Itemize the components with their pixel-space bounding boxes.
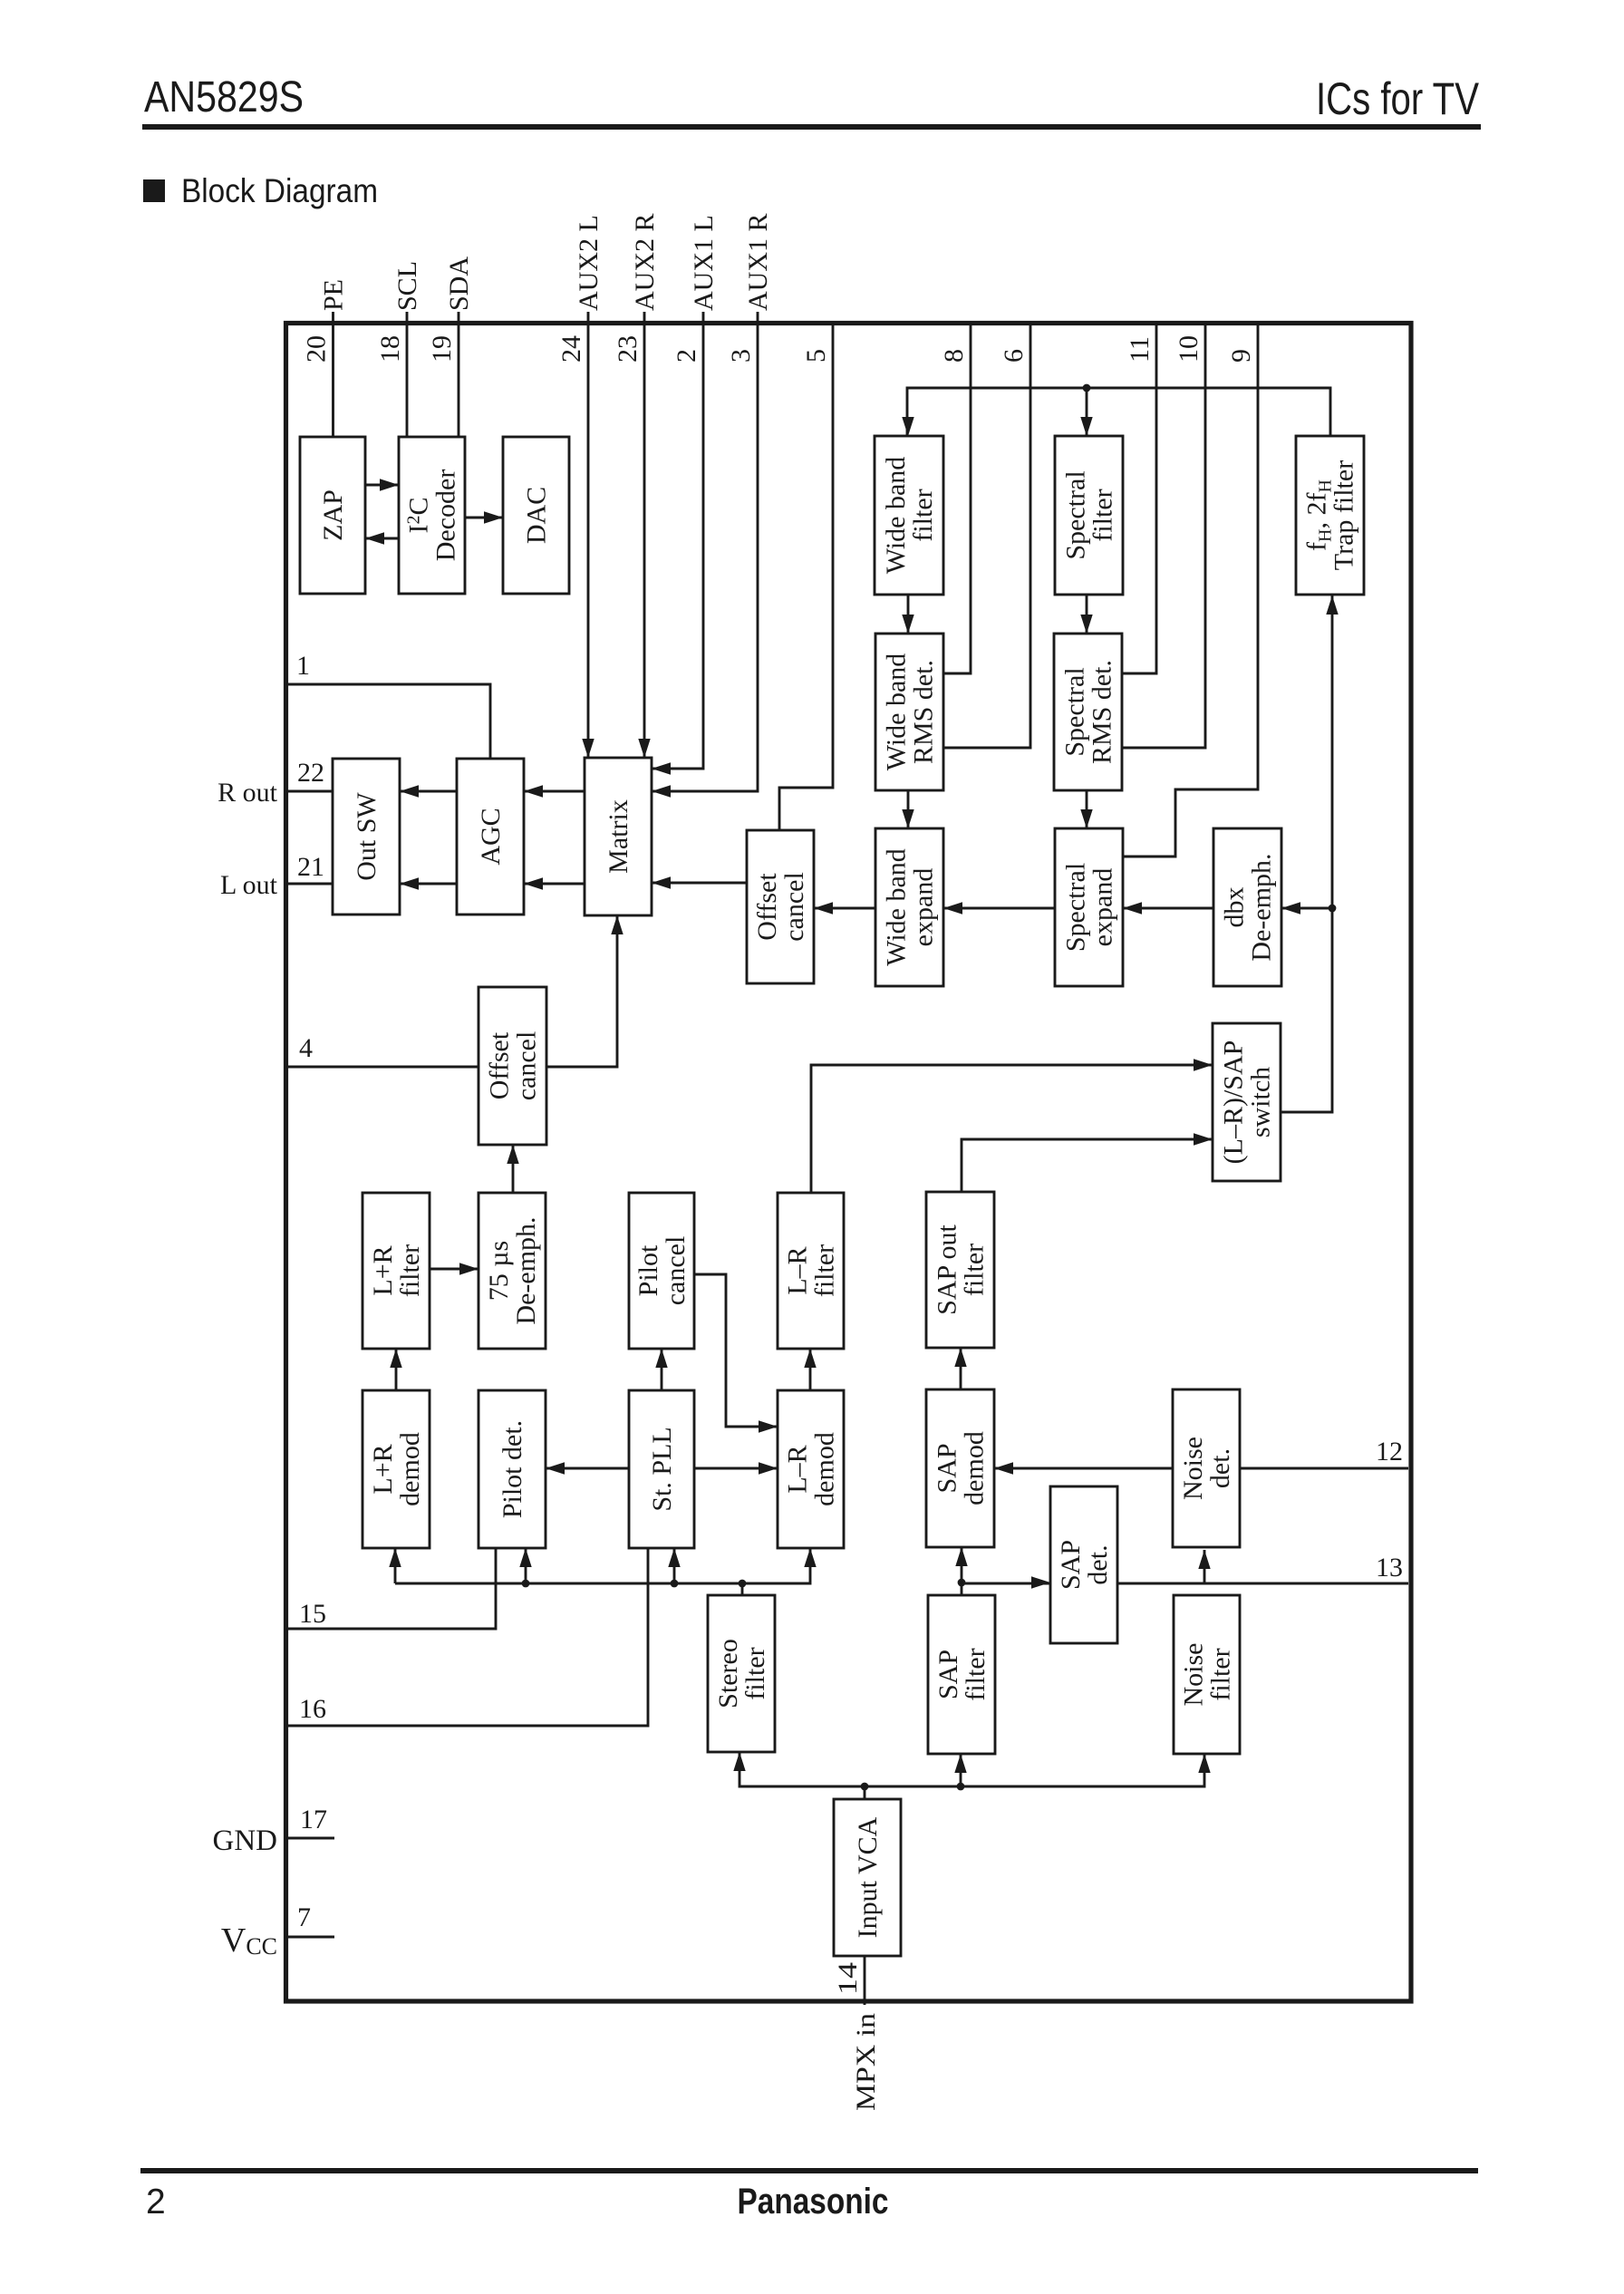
svg-text:Wide band: Wide band [882,848,912,966]
wire Wide band RMS det. to expand [907,790,910,828]
svg-text:SCL: SCL [392,261,422,311]
wire Wide band filter to RMS det. [907,594,910,634]
svg-text:Offset: Offset [752,873,782,941]
pin number 9 [1226,349,1256,363]
pin label R out [217,778,278,808]
svg-text:expand: expand [1088,868,1118,947]
pin label AUX2 L [574,215,604,311]
svg-text:2: 2 [672,349,701,363]
pin number 24 [556,335,586,363]
svg-text:16: 16 [299,1694,326,1724]
block AGC [457,759,524,915]
wire pin 21 L out [288,883,333,886]
header rule [142,124,1481,130]
block L+R filter [362,1193,430,1349]
block L-R demod [778,1390,844,1548]
arrow into SAP demod right from pin 12 [994,1462,1013,1474]
arrow into Matrix right from pin 3 [652,785,671,797]
junction bus from Stereo filter [739,1580,747,1595]
svg-text:ZAP: ZAP [318,489,348,541]
wire pin 16 to St. PLL [288,1548,648,1726]
svg-text:L–R: L–R [783,1445,813,1493]
svg-text:RMS det.: RMS det. [1087,660,1117,764]
svg-text:20: 20 [302,335,332,363]
svg-text:Panasonic: Panasonic [738,2182,889,2221]
wire Matrix to AGC (R) [524,790,585,793]
svg-text:filter: filter [740,1647,770,1699]
arrow into DAC [484,511,503,523]
block SAP filter [928,1595,995,1754]
svg-text:dbx: dbx [1220,887,1250,928]
pin number 7 [297,1902,311,1932]
wire Spectral expand to Wide band expand [943,907,1055,910]
block Wide band RMS det. [875,634,943,790]
svg-text:filter: filter [395,1244,425,1297]
svg-text:10: 10 [1174,335,1203,363]
svg-text:det.: det. [1083,1544,1113,1584]
block 75us De-emph. [478,1193,546,1349]
block (L-R)/SAP switch [1213,1023,1281,1181]
block SAP demod [926,1389,994,1547]
pin label SDA [444,257,474,311]
junction bus to Pilot det. [522,1548,530,1587]
junction to dbx De-emph. [1281,905,1336,913]
block L-R filter [778,1193,844,1349]
arrow into SAP demod bottom [955,1547,967,1566]
block Pilot det. [478,1390,546,1548]
arrow into 75us De-emph. [459,1263,478,1274]
arrow into L+R filter [390,1349,401,1368]
pin label VCC [221,1921,277,1960]
svg-text:AUX2 L: AUX2 L [574,215,604,311]
svg-text:filter: filter [1206,1648,1236,1700]
arrow into Offset cancel 2 bottom [507,1145,518,1164]
svg-text:L+R: L+R [368,1245,398,1295]
wire pin 6 to Wide band RMS det. [943,321,1030,748]
svg-text:filter: filter [908,489,938,541]
arrow into AGC (R) [524,785,543,797]
arrow into I2C Decoder from ZAP [380,479,399,490]
svg-text:L+R: L+R [368,1444,398,1494]
svg-text:demod: demod [960,1431,990,1505]
wire pin 19 (SDA) to I2C Decoder [458,312,460,437]
block I2C Decoder [399,437,465,594]
arrow into SAP filter bottom [954,1754,966,1773]
pin label PE [319,279,349,311]
wire dbx De-emph. to Spectral expand [1123,907,1213,910]
arrow into switch from L-R filter [1194,1059,1213,1070]
block Offset cancel 1 [747,830,814,983]
svg-text:MPX in: MPX in [851,2013,881,2111]
svg-text:AUX2 R: AUX2 R [630,213,660,311]
svg-text:SAP out: SAP out [933,1224,962,1314]
pin label SCL [392,261,422,311]
svg-text:SAP: SAP [933,1650,963,1699]
block Spectral filter [1055,436,1123,595]
wire pin 9 to Spectral expand [1123,321,1258,857]
block Out SW [333,759,400,915]
wire I2C Decoder to ZAP [365,537,399,540]
arrow into Noise det. bottom [1198,1550,1210,1569]
wire input bus [739,1752,1204,1786]
svg-text:21: 21 [297,852,324,882]
wire St. PLL to Pilot cancel [661,1349,663,1390]
svg-text:11: 11 [1125,336,1155,363]
wire Spectral filter to RMS det. [1086,594,1088,634]
svg-text:Spectral: Spectral [1061,863,1091,952]
svg-text:1: 1 [296,651,310,681]
arrow into dbx De-emph. [1281,902,1300,914]
wire Matrix to AGC (L) [524,883,585,886]
pin number 5 [801,349,831,363]
svg-text:cancel: cancel [779,872,809,942]
wire pin 2 (AUX1 L) to Matrix [652,312,703,769]
arrow into Matrix top from pin 23 [638,739,650,758]
block L+R demod [362,1390,430,1548]
svg-text:Pilot det.: Pilot det. [498,1420,527,1518]
svg-text:3: 3 [726,349,756,363]
svg-text:Wide band: Wide band [881,457,911,575]
svg-text:23: 23 [613,335,643,363]
pin label AUX1 R [743,213,773,311]
arrow into Pilot det. right [546,1462,565,1474]
svg-text:Noise: Noise [1178,1437,1208,1500]
junction trap bus to Spectral filter [1083,384,1091,436]
arrow into L-R filter [804,1349,816,1368]
wire demod input bus [395,1548,810,1583]
block St. PLL [629,1390,694,1548]
pin number 22 [297,758,324,788]
pin number 4 [299,1033,313,1063]
block SAP det. [1050,1486,1117,1643]
svg-text:Pilot: Pilot [633,1244,663,1296]
svg-text:Matrix: Matrix [604,799,633,874]
text: page number 2 [146,2183,166,2221]
svg-text:(L–R)/SAP: (L–R)/SAP [1219,1041,1249,1165]
arrow into Matrix right from Offset cancel [652,876,671,888]
block fH 2fH Trap filter [1296,436,1364,595]
wire ZAP to I2C Decoder [365,484,399,487]
wire AGC to Out SW (R) [400,790,457,793]
svg-text:Input VCA: Input VCA [853,1816,883,1938]
wire Pilot cancel to L-R demod [694,1274,778,1427]
junction bus to St. PLL [671,1548,679,1587]
pin number 6 [999,349,1029,363]
svg-text:det.: det. [1205,1448,1235,1488]
pin number 17 [300,1805,327,1834]
wire pin 15 to Pilot det. [288,1548,496,1629]
svg-text:demod: demod [395,1432,425,1506]
pin number 3 [726,349,756,363]
wire (L-R)/SAP switch to trap filter [1281,595,1332,1112]
block Noise filter [1174,1595,1240,1754]
svg-text:Spectral: Spectral [1061,470,1091,559]
wire pin 12 to SAP demod [994,1467,1408,1470]
wire to Noise det. [1203,1550,1206,1583]
wire pin 11 to Spectral RMS det. [1122,321,1156,673]
svg-text:8: 8 [939,349,969,363]
pin number 15 [299,1599,326,1629]
svg-text:AGC: AGC [476,808,506,865]
svg-text:Noise: Noise [1179,1643,1209,1707]
svg-text:demod: demod [810,1432,840,1506]
text: Panasonic logotype [738,2182,889,2221]
wire pin 22 R out [288,790,333,793]
wire Wide band expand to Offset cancel [814,907,875,910]
wire Spectral RMS det. to expand [1086,790,1088,828]
pin number 20 [302,335,332,363]
wire SAP out filter to (L-R)/SAP switch [962,1139,1213,1192]
svg-text:PE: PE [319,279,349,311]
wire Offset cancel to Matrix [652,882,747,885]
arrow into Spectral filter [1080,417,1092,436]
svg-text:R out: R out [217,778,278,808]
svg-text:De-emph.: De-emph. [511,1216,541,1324]
block Wide band expand [875,828,943,986]
svg-text:SAP: SAP [933,1443,962,1493]
svg-text:I2C: I2C [404,497,434,533]
svg-text:2: 2 [146,2183,166,2221]
pin number 11 [1125,336,1155,363]
arrow into trap filter bottom [1326,595,1338,615]
arrow into Offset cancel right [814,902,833,914]
svg-text:filter: filter [1088,489,1118,541]
svg-text:Out SW: Out SW [352,792,382,881]
svg-text:ICs for TV: ICs for TV [1316,73,1480,124]
block dbx De-emph. [1213,828,1281,986]
arrow into St. PLL bottom [668,1548,680,1567]
block Wide band filter [875,436,943,595]
block Spectral expand [1055,828,1123,986]
svg-text:Block Diagram: Block Diagram [181,172,378,209]
block Spectral RMS det. [1054,634,1122,790]
wire L+R filter to 75us De-emph. [430,1268,478,1271]
block Noise det. [1173,1389,1240,1547]
arrow into Matrix right from pin 2 [652,762,671,774]
svg-text:St. PLL: St. PLL [647,1427,677,1511]
wire pin 18 (SCL) to I2C Decoder [406,312,409,437]
junction input bus to SAP filter [957,1754,965,1790]
arrow into Matrix bottom [611,915,623,934]
svg-text:L out: L out [220,870,278,900]
svg-text:4: 4 [299,1033,313,1063]
svg-text:filter: filter [961,1648,991,1700]
arrow into L+R demod bottom [389,1548,401,1567]
arrow into Spectral RMS det. [1080,615,1092,634]
pin stub 7 VCC [288,1936,334,1939]
arrow into SAP det. [1031,1576,1050,1588]
arrow into Wide band expand [902,809,913,828]
wire pin 13 / SAP det. bus [962,1583,1408,1585]
section marker square [143,179,165,202]
arrow into switch from SAP out filter [1194,1133,1213,1145]
arrow into L-R demod from Pilot cancel [759,1420,778,1432]
pin label GND [213,1825,278,1857]
svg-text:switch: switch [1246,1067,1276,1137]
svg-text:22: 22 [297,758,324,788]
svg-text:18: 18 [375,335,405,363]
wire 75us De-emph. to Offset cancel [512,1145,515,1193]
block Input VCA [834,1799,901,1956]
wire pin 23 (AUX2 R) to Matrix [643,312,646,758]
pin label AUX1 L [689,215,719,311]
svg-text:SDA: SDA [444,257,474,311]
block Matrix [585,758,652,915]
wire AGC to Out SW (L) [400,883,457,886]
svg-text:13: 13 [1376,1553,1403,1583]
arrow into Out SW (R) [400,785,419,797]
text: header right ICs for TV [1316,73,1480,124]
wire St. PLL to L-R demod [694,1467,778,1470]
arrow into Spectral expand top [1080,809,1092,828]
pin number 2 [672,349,701,363]
arrow into Noise filter bottom [1198,1754,1210,1773]
svg-text:17: 17 [300,1805,327,1834]
pin number 18 [375,335,405,363]
block DAC [503,437,569,594]
arrow into SAP out filter [954,1348,966,1367]
svg-text:Offset: Offset [485,1031,515,1099]
pin number 16 [299,1694,326,1724]
svg-text:14: 14 [833,1962,863,1995]
svg-text:6: 6 [999,349,1029,363]
wire trap filter output bus [907,388,1330,436]
wire pin 8 to Wide band RMS det. [943,321,971,673]
svg-text:Spectral: Spectral [1060,667,1090,756]
block Offset cancel 2 [478,987,546,1145]
arrow into Matrix top from pin 24 [582,739,594,758]
wire L-R demod to L-R filter [809,1349,812,1390]
svg-text:5: 5 [801,349,831,363]
arrow into Wide band filter [902,417,913,436]
wire St. PLL to Pilot det. [546,1467,629,1470]
svg-text:filter: filter [810,1244,840,1297]
wire pin 3 (AUX1 R) to Matrix [652,312,758,791]
arrow into ZAP from I2C Decoder [365,532,384,544]
svg-text:7: 7 [297,1902,311,1932]
arrow into Pilot cancel [655,1349,667,1368]
svg-text:SAP: SAP [1056,1540,1086,1590]
svg-text:Decoder: Decoder [431,469,461,562]
pin number 10 [1174,335,1203,363]
wire pin 14 MPX in [864,1956,866,2005]
footer rule [140,2168,1478,2173]
svg-text:DAC: DAC [522,487,552,544]
svg-text:12: 12 [1376,1437,1403,1466]
pin number 23 [613,335,643,363]
svg-text:Stereo: Stereo [713,1639,743,1708]
wire pin 20 (PE) to ZAP [332,312,334,437]
pin number 14 [833,1962,863,1995]
wire L+R demod to L+R filter [395,1349,398,1390]
svg-text:GND: GND [213,1825,278,1857]
svg-text:15: 15 [299,1599,326,1629]
wire SAP demod to SAP out filter [960,1348,962,1389]
arrow into Stereo filter bottom [733,1752,745,1771]
svg-text:Trap filter: Trap filter [1329,460,1359,570]
pin number 19 [427,335,457,363]
svg-text:expand: expand [909,868,939,947]
block SAP out filter [926,1192,994,1348]
wire L-R filter to (L-R)/SAP switch [811,1065,1213,1193]
IC boundary frame [286,324,1412,2002]
pin stub 17 GND [288,1837,334,1840]
wire pin 10 to Spectral RMS det. [1122,321,1205,748]
svg-text:RMS det.: RMS det. [909,660,939,764]
arrow into Pilot det. bottom [519,1548,531,1567]
pin number 21 [297,852,324,882]
svg-text:De-emph.: De-emph. [1247,853,1277,961]
pin number 8 [939,349,969,363]
arrow into L-R demod bottom [804,1548,816,1567]
svg-text:19: 19 [427,335,457,363]
pin number 13 [1376,1553,1403,1583]
junction input bus to Input VCA [861,1783,869,1799]
arrow into AGC (L) [524,877,543,889]
svg-text:75 µs: 75 µs [484,1241,514,1301]
arrow into Wide band expand right [943,902,962,914]
block Pilot cancel [629,1193,694,1349]
text: page title AN5829S [144,73,304,121]
text: section title Block Diagram [181,172,378,209]
svg-text:9: 9 [1226,349,1256,363]
svg-text:L–R: L–R [783,1246,813,1294]
wire pin 4 to Matrix via Offset cancel [288,915,617,1067]
svg-text:cancel: cancel [661,1236,691,1306]
arrow into Out SW (L) [400,877,419,889]
arrow into Spectral expand right [1123,902,1142,914]
arrow into L-R demod from St. PLL [759,1462,778,1474]
svg-text:filter: filter [960,1244,990,1296]
pin label AUX2 R [630,213,660,311]
svg-text:AUX1 R: AUX1 R [743,213,773,311]
junction SAP filter to SAP demod [958,1547,966,1595]
wire pin 5 to Offset cancel [779,321,833,830]
wire pin 24 (AUX2 L) to Matrix [587,312,590,758]
svg-text:24: 24 [556,335,586,363]
svg-text:cancel: cancel [512,1031,542,1101]
pin number 1 [296,651,310,681]
pin number 12 [1376,1437,1403,1466]
block ZAP [300,437,365,594]
arrow into Wide band RMS det. [902,615,913,634]
wire I2C Decoder to DAC [465,517,503,519]
pin label MPX in [851,2013,881,2111]
svg-text:Wide band: Wide band [882,653,912,771]
block Stereo filter [708,1595,775,1752]
svg-text:AUX1 L: AUX1 L [689,215,719,311]
pin label L out [220,870,278,900]
wire pin 1 to AGC [288,684,490,759]
svg-text:AN5829S: AN5829S [144,73,304,121]
